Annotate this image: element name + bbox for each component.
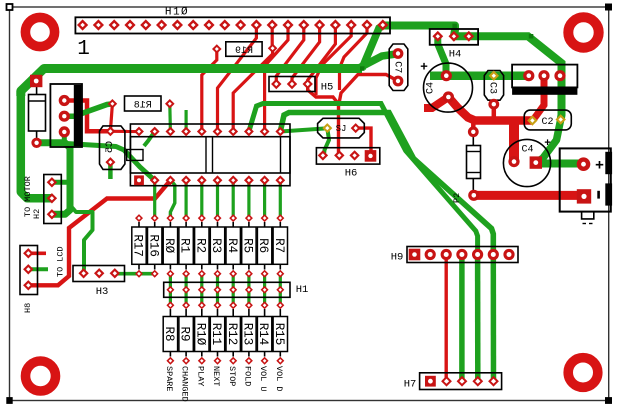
svg-text:FOLD: FOLD <box>243 366 253 386</box>
fuse pads <box>468 126 480 200</box>
IC U1 outline <box>127 124 290 186</box>
junction dot band A Y <box>360 66 365 71</box>
header H9 pads <box>409 249 515 261</box>
wire green IC pin to resistor column 4 <box>200 180 203 218</box>
transistor Q1 pads <box>59 95 70 138</box>
wire green IC pin to R16 top <box>153 180 156 218</box>
label box R18 <box>125 96 162 111</box>
pad left resistor bottom <box>31 138 41 148</box>
wire red bar drop to fuse top pad <box>471 121 476 132</box>
wire red H5.3 to H6.2 <box>308 84 339 155</box>
wire red H8.3 to IC pin (170.4) <box>28 180 170 285</box>
svg-text:TO LCD: TO LCD <box>56 246 66 277</box>
stub green C5.2 <box>108 162 113 179</box>
wire green H4.1 to C4.1 <box>438 36 446 75</box>
svg-text:C2: C2 <box>541 117 553 128</box>
label R12 (rotated) <box>225 323 239 346</box>
resistor bottom pads row <box>135 270 284 278</box>
corner marker top-right <box>606 4 612 10</box>
svg-text:H8: H8 <box>23 303 33 313</box>
svg-text:NEXT: NEXT <box>211 366 221 386</box>
label box R19 <box>226 42 262 57</box>
label H4 <box>449 49 462 61</box>
header H7 outline <box>420 373 502 390</box>
svg-text:H4: H4 <box>449 49 462 61</box>
capacitor C4b circle <box>503 139 550 186</box>
svg-text:R11: R11 <box>209 323 223 346</box>
svg-text:VOL D: VOL D <box>274 366 284 392</box>
svg-text:SJ: SJ <box>336 124 347 134</box>
label R14 (rotated) <box>256 323 270 346</box>
IC U1 bottom pads <box>134 175 285 185</box>
corner marker top-left <box>7 4 13 10</box>
junction dot band B end <box>452 24 457 29</box>
label R4 (rotated) <box>225 238 239 253</box>
wire green band C4-C3-relay <box>430 71 529 80</box>
label H9 <box>391 252 404 264</box>
resistor boxes R17 R16 R0-R7 <box>132 222 288 270</box>
svg-text:C4: C4 <box>521 145 533 156</box>
stub green H8.2 <box>28 267 48 271</box>
wire red H10.12 to R19.2 <box>271 25 274 48</box>
wire green column 3 through H1 <box>185 274 188 306</box>
connector J1 pads <box>577 157 592 203</box>
capacitor C4b pads <box>508 156 542 169</box>
svg-text:+: + <box>544 138 551 150</box>
svg-text:C7: C7 <box>392 61 403 73</box>
wire red H10.16 to H5.3 <box>308 25 336 84</box>
svg-text:R12: R12 <box>225 323 239 346</box>
label R11 (rotated) <box>209 323 223 346</box>
wire green band to C7.1 <box>358 54 396 69</box>
label R&#216; (rotated) <box>162 238 176 254</box>
jumper SJ outline <box>318 118 365 138</box>
label R18 (mirrored) <box>134 100 152 111</box>
corner marker bottom-right <box>606 398 612 404</box>
label button STOP (rotated) <box>227 366 237 386</box>
label button PLAY (rotated) <box>195 366 205 386</box>
capacitor C4 pad2 <box>443 91 454 102</box>
stub green H2.1 <box>52 180 73 185</box>
label C4 (rotated) <box>426 82 437 94</box>
wire green R18.2 to IC pin <box>168 104 172 132</box>
wire green SJ.1 to H6.1 <box>324 128 329 155</box>
wire green IC pin to R0 top (jogged) <box>170 181 174 218</box>
header H8 outline <box>20 246 38 295</box>
label R15 (rotated) <box>272 323 286 346</box>
capacitor C2 pads <box>527 114 566 125</box>
label H10 <box>165 7 189 19</box>
svg-text:STOP: STOP <box>227 366 237 386</box>
label TO MOTOR (rotated) <box>23 176 33 217</box>
label R9 (rotated) <box>178 326 192 341</box>
capacitor C5 pads <box>105 126 115 167</box>
mounting hole bottom-right <box>568 358 598 388</box>
svg-text:R8: R8 <box>162 326 176 341</box>
wire green IC top pad (154.7) branch <box>144 132 155 147</box>
header H7 pads <box>425 376 499 387</box>
wire red H10.11 to IC pin (216.8) <box>218 25 257 132</box>
svg-text:R19: R19 <box>235 46 253 57</box>
label button NEXT (rotated) <box>211 366 221 386</box>
wire green IC pin to resistor column 3 <box>185 180 188 218</box>
label P2 (rotated) <box>452 193 462 203</box>
pad R19.1 <box>212 44 222 54</box>
svg-text:P2: P2 <box>452 193 462 203</box>
junction dot H4.3 corner <box>529 34 534 39</box>
svg-text:H3: H3 <box>96 286 109 298</box>
wire red R19.1 to IC pin (201.8) <box>202 49 217 132</box>
label button FOLD (rotated) <box>243 366 253 386</box>
label R13 (rotated) <box>241 323 255 346</box>
mounting hole top-left <box>25 17 54 46</box>
wire green IC pin to resistor column 9 <box>279 180 282 218</box>
corner marker bottom-left <box>7 398 12 404</box>
svg-text:R18: R18 <box>134 100 152 111</box>
header H2 outline <box>44 175 62 224</box>
label J1 plus <box>595 158 604 175</box>
wire red Q1.1 to C5.1 <box>64 101 110 132</box>
svg-text:H6: H6 <box>345 168 358 180</box>
label H2 (rotated) <box>32 209 42 219</box>
svg-text:C5: C5 <box>105 141 116 153</box>
mounting hole top-right <box>568 17 598 47</box>
label button VOL D (rotated) <box>274 366 284 392</box>
header H4 outline <box>430 29 478 45</box>
wire green band to H10 end <box>362 26 383 69</box>
svg-text:RØ: RØ <box>162 238 176 254</box>
capacitor C5 outline <box>100 126 125 169</box>
label C7 (rotated) <box>392 61 403 73</box>
stub red H8.1 <box>28 252 46 256</box>
label R19 (mirrored) <box>235 46 253 57</box>
wire green pad36 to H2.3 S-bend <box>37 143 70 215</box>
svg-text:R5: R5 <box>241 238 255 253</box>
svg-text:+: + <box>595 158 604 175</box>
wire red thick C4.2 to bar <box>448 97 532 121</box>
wire green column 4 through H1 <box>200 274 203 306</box>
label TO LCD (rotated) <box>56 246 66 277</box>
wire green IC pin to SJ.1 <box>280 128 328 131</box>
wire red H10.18 to node <box>340 25 368 90</box>
capacitor C3 pads <box>488 71 499 110</box>
svg-text:R6: R6 <box>256 238 270 253</box>
header H2 pads <box>47 177 57 219</box>
svg-text:R2: R2 <box>193 238 207 253</box>
wire green IC pin to resistor column 8 <box>263 180 266 218</box>
label R17 (rotated) <box>131 234 145 257</box>
wire red R19.2 to IC pin (233) <box>233 48 272 131</box>
wire green stub IC pin (186) <box>185 110 188 132</box>
svg-text:+: + <box>420 60 428 75</box>
label R16 (rotated) <box>146 234 160 257</box>
wire red C5.1 to IC pin1 <box>110 130 139 133</box>
connector J1 outline <box>560 148 612 223</box>
svg-text:H7: H7 <box>404 379 417 391</box>
svg-text:H9: H9 <box>391 252 404 264</box>
svg-text:C3: C3 <box>487 82 498 94</box>
svg-text:1: 1 <box>77 38 90 61</box>
label H7 <box>404 379 417 391</box>
label button CHANGED (rotated) <box>180 366 190 402</box>
label SJ <box>336 124 347 134</box>
wire red C7.2 to node <box>339 75 399 107</box>
header H5 outline <box>269 77 315 92</box>
pad R19.2 <box>268 44 278 54</box>
wire green column 8 through H1 <box>263 274 266 306</box>
wire red R18.1 to C5.1 <box>110 104 112 132</box>
svg-text:R14: R14 <box>256 323 270 346</box>
label R1&#216; (rotated) <box>193 323 207 346</box>
svg-text:R7: R7 <box>272 238 286 253</box>
label H1 <box>296 284 309 296</box>
resistor boxes R8-R15 <box>163 309 287 357</box>
pad square left power <box>30 75 42 87</box>
label H5 <box>321 82 334 94</box>
label C4b <box>521 145 533 156</box>
svg-text:SPARE: SPARE <box>164 366 174 392</box>
wire red C3.2 drop to bar <box>492 104 497 120</box>
svg-text:H1: H1 <box>296 284 309 296</box>
wire green column 2 through H1 <box>169 274 172 306</box>
svg-text:R1Ø: R1Ø <box>193 323 207 346</box>
wire red H9.3 to H7.2 <box>445 255 448 382</box>
header H4 pads <box>432 31 474 42</box>
wire green IC pin to band-lower to H9.6 <box>280 113 493 255</box>
svg-text:R13: R13 <box>241 323 255 346</box>
IC U1 top pads <box>134 127 285 137</box>
svg-text:C4: C4 <box>426 82 437 94</box>
header H3 outline <box>73 266 125 282</box>
wire green H4.3 to C2.2 <box>452 36 562 119</box>
label R7 (rotated) <box>272 238 286 253</box>
header H9 outline <box>407 247 518 263</box>
svg-text:R3: R3 <box>209 238 223 253</box>
wire green H3.3 bus to R16/R17 bottoms <box>115 272 156 276</box>
svg-text:PLAY: PLAY <box>195 366 205 386</box>
label plus near C4 <box>420 60 428 75</box>
label button VOL U (rotated) <box>258 366 268 392</box>
wire green C4b to J1 plus <box>536 160 584 168</box>
wire green C2.2 to C4b square pad <box>536 120 561 163</box>
svg-text:VOL U: VOL U <box>258 366 268 392</box>
label R5 (rotated) <box>241 238 255 253</box>
label R3 (rotated) <box>209 238 223 253</box>
label pin1 marker <box>77 38 90 61</box>
label button SPARE (rotated) <box>164 366 174 392</box>
header H6 outline <box>316 148 379 164</box>
svg-text:H2: H2 <box>32 209 42 219</box>
capacitor C7 outline <box>389 44 408 91</box>
capacitor C3 outline <box>484 71 503 101</box>
capacitor C4 circle <box>424 63 473 112</box>
wire red H10.13 to IC pin (264.6) <box>265 25 288 132</box>
wire green S to H3.1 <box>70 205 93 273</box>
label plus near C4b <box>544 138 551 150</box>
jumper SJ pads <box>322 123 360 133</box>
wire red H10.14 to H5.1 <box>276 25 304 84</box>
wire green Q1.2 to R18.1 <box>64 104 112 116</box>
svg-text:R1: R1 <box>178 238 192 253</box>
wire red bottom bar to J1 minus <box>474 191 578 200</box>
wire red thick C4.2 stub left <box>424 97 448 108</box>
header H6 pads <box>318 150 377 162</box>
wire green IC pin to resistor column 6 <box>232 180 235 218</box>
svg-text:R16: R16 <box>146 234 160 257</box>
wire green node36 to IC pin (154.7) <box>62 143 155 180</box>
wire green H9.6 to H7.5 <box>491 255 497 382</box>
resistor R20 outline <box>29 87 46 138</box>
label C5 (rotated mirrored) <box>105 141 116 153</box>
capacitor C4 pad <box>441 70 452 81</box>
wire green IC pin to resistor column 7 <box>247 180 250 218</box>
svg-text:CHANGED: CHANGED <box>180 366 190 402</box>
wire green H9.4 to H7.3 <box>459 255 465 382</box>
wire red H10.17 to node <box>316 25 351 95</box>
connector P1 outline <box>512 65 577 95</box>
capacitor C2 outline <box>524 110 571 130</box>
label H6 <box>345 168 358 180</box>
wire red relay.2 to C2.1 <box>532 76 544 121</box>
label R2 (rotated) <box>193 238 207 253</box>
wire green H10end to H4.2 <box>383 26 455 37</box>
wire green column 9 through H1 <box>279 274 282 306</box>
wire green main band left <box>21 69 362 97</box>
header H8 pads <box>23 248 33 290</box>
wire green Q1.3 to node <box>62 132 67 143</box>
svg-text:R15: R15 <box>272 323 286 346</box>
capacitor C7 pads <box>393 48 404 86</box>
R8-R15 bottom pads <box>166 357 284 365</box>
svg-text:R9: R9 <box>178 326 192 341</box>
wire red SJ.2 to H6.4 <box>356 128 371 156</box>
svg-text:H5: H5 <box>321 82 334 94</box>
label H3 <box>96 286 109 298</box>
label C2 <box>541 117 553 128</box>
header H1 outline <box>164 282 290 297</box>
R8-R15 top pads <box>166 301 284 309</box>
resistor top pads row <box>135 214 284 222</box>
label R1 (rotated) <box>178 238 192 253</box>
label R6 (rotated) <box>256 238 270 253</box>
connector P1 pads <box>523 70 565 81</box>
header H1 pads <box>166 286 284 294</box>
header H10 outline <box>75 17 390 33</box>
label J1 minus <box>597 191 600 199</box>
pads R18 <box>108 99 175 109</box>
wire green column 6 through H1 <box>232 274 235 306</box>
transistor Q1 outline <box>50 84 82 147</box>
header H3 pads <box>78 268 120 278</box>
wire green column 7 through H1 <box>247 274 250 306</box>
svg-text:R17: R17 <box>131 234 145 257</box>
wire green IC pin to band-upper to H9.5 <box>249 104 478 255</box>
wire green column 5 through H1 <box>216 274 219 306</box>
wire green IC pin to resistor column 5 <box>216 180 219 218</box>
header H5 pads <box>271 79 313 89</box>
svg-text:R4: R4 <box>225 238 239 253</box>
resistor P2 outline <box>467 137 481 190</box>
label H8 (rotated) <box>23 303 33 313</box>
mounting hole bottom-left <box>26 361 56 391</box>
svg-text:H1Ø: H1Ø <box>165 7 189 19</box>
header H10 pads <box>77 19 388 30</box>
wire green H9.5 to H7.4 <box>475 255 481 382</box>
wire red H10.15 to H5.2 <box>292 25 320 84</box>
label R8 (rotated) <box>162 326 176 341</box>
wire red bar to C4b pad <box>509 124 519 162</box>
wire green left vertical to H2.2 <box>21 92 52 198</box>
label C3 (rotated) <box>487 82 498 94</box>
